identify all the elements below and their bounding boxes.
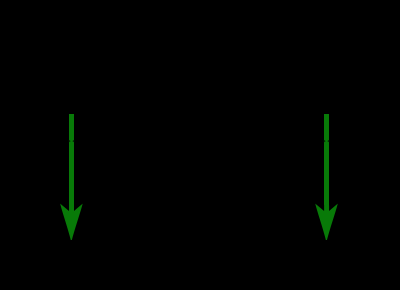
svg-text:I1: I1 bbox=[84, 162, 97, 179]
wire top rail (node A to node B) bbox=[40, 140, 360, 142]
svg-text:I2: I2 bbox=[339, 162, 352, 179]
head notch carve I2 bbox=[317, 205, 335, 211]
head notch carve I1 bbox=[62, 205, 80, 211]
svg-text:R1: R1 bbox=[90, 252, 110, 269]
wire right branch bbox=[325, 141, 327, 248]
node A junction bbox=[69, 138, 75, 144]
wire crossing notch over I2 shaft bbox=[324, 140, 329, 143]
current arrow I1 (green, downward) bbox=[61, 114, 82, 240]
svg-text:R2: R2 bbox=[345, 252, 366, 269]
resistor R2 bbox=[316, 248, 337, 272]
current arrow I2 (green, downward) bbox=[316, 114, 337, 240]
wire crossing notch over I1 shaft bbox=[69, 140, 74, 143]
wire left branch bbox=[70, 141, 72, 248]
node B junction bbox=[324, 138, 330, 144]
wire bottom rail bbox=[72, 272, 327, 278]
resistor R1 bbox=[61, 248, 82, 272]
